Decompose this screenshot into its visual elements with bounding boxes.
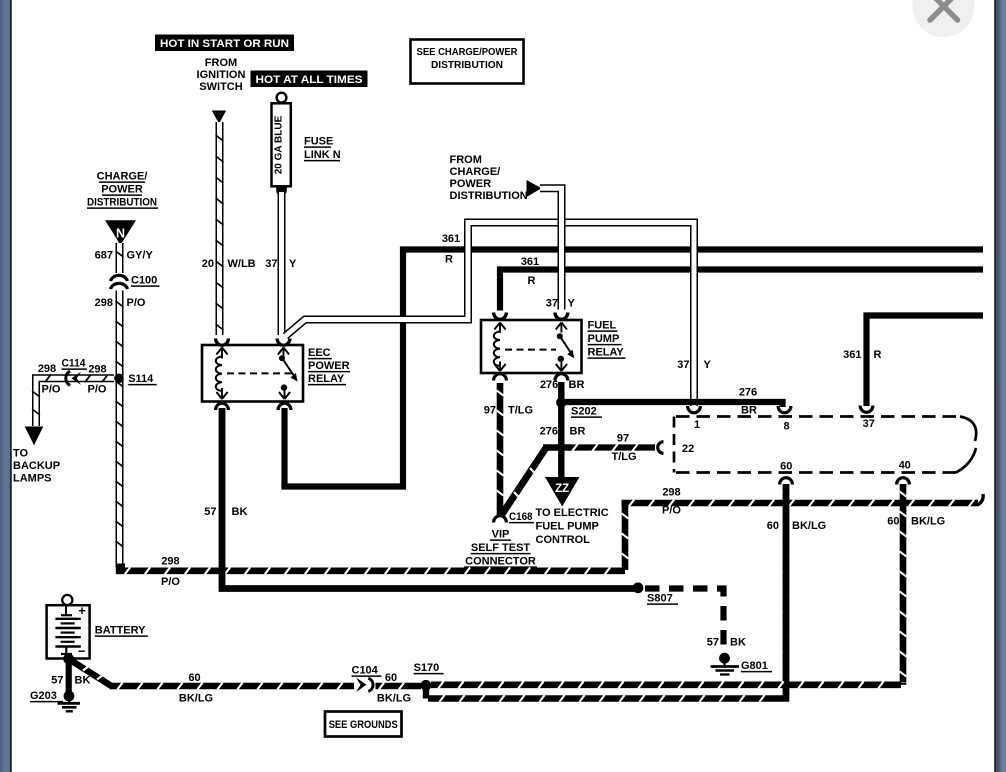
right viewer sidebar [994, 0, 1006, 772]
svg-text:276: 276 [540, 379, 558, 391]
svg-text:FUEL: FUEL [588, 320, 617, 332]
corner filler 298 P/O [116, 564, 125, 575]
svg-text:C114: C114 [62, 358, 87, 370]
svg-text:T/LG: T/LG [611, 451, 636, 463]
svg-text:DISTRIBUTION: DISTRIBUTION [431, 60, 503, 71]
wire 97 T/LG vertical [497, 383, 504, 515]
svg-text:HOT IN START OR RUN: HOT IN START OR RUN [160, 38, 289, 50]
svg-text:T/LG: T/LG [508, 405, 533, 417]
svg-text:BACKUP: BACKUP [13, 460, 60, 472]
svg-text:BK/LG: BK/LG [792, 520, 826, 532]
svg-text:G203: G203 [30, 690, 57, 702]
label VIP SELF TEST CONNECTOR [464, 529, 537, 568]
svg-text:BK: BK [232, 506, 248, 518]
header box HOT AT ALL TIMES [251, 71, 368, 88]
wire 37 Y to fuel pump relay [540, 188, 562, 309]
feed triangle from ignition switch [212, 111, 226, 124]
label 361 R (middle) [521, 256, 539, 287]
label 361 R (right) [843, 349, 881, 361]
label 57 BK (G801) [707, 637, 746, 649]
svg-text:C104: C104 [352, 665, 379, 677]
svg-text:20: 20 [202, 258, 214, 270]
label CHARGE/POWER DISTRIBUTION [87, 171, 158, 209]
svg-text:FROM: FROM [450, 154, 482, 166]
relay fuel pump relay box [481, 320, 582, 373]
wire 60 BK/LG battery to C104 [110, 683, 354, 690]
svg-text:FROM: FROM [205, 57, 237, 69]
label FROM IGNITION SWITCH [197, 57, 246, 93]
label 20 W/LB [202, 258, 256, 270]
svg-text:LINK N: LINK N [304, 149, 341, 161]
ground G801 [711, 653, 773, 675]
svg-text:S170: S170 [414, 662, 440, 674]
svg-text:R: R [445, 254, 453, 266]
label 37 Y (fuel pump relay) [546, 298, 576, 310]
label 276 BR (lower) [540, 426, 586, 438]
svg-text:60: 60 [780, 461, 792, 473]
fuel pump connector dashed box [674, 417, 976, 473]
svg-text:57: 57 [204, 506, 216, 518]
svg-text:VIP: VIP [492, 529, 510, 541]
label 298 P/O (upper) [95, 297, 146, 309]
wire 361 R from EEC relay (thick) [285, 250, 984, 487]
svg-text:CONNECTOR: CONNECTOR [465, 556, 536, 568]
svg-text:SEE CHARGE/POWER: SEE CHARGE/POWER [417, 47, 519, 58]
battery junction dot [63, 653, 74, 664]
svg-text:298: 298 [95, 297, 113, 309]
label 298 P/O (bottom) [161, 556, 180, 589]
svg-text:SELF TEST: SELF TEST [471, 542, 531, 554]
relay pin cup overlays [216, 313, 568, 346]
svg-text:CHARGE/: CHARGE/ [97, 171, 148, 183]
relay EEC power relay box [202, 345, 303, 402]
fuel pump relay pin cups [494, 313, 568, 381]
power feed triangle N [105, 220, 136, 245]
label 97 T/LG (horizontal) [611, 433, 636, 464]
svg-text:N: N [116, 227, 125, 241]
pin 22 [658, 442, 695, 455]
wire 37 Y dogleg EEC relay to pin 1 [286, 223, 695, 407]
svg-text:276: 276 [540, 426, 558, 438]
svg-text:HOT AT ALL TIMES: HOT AT ALL TIMES [256, 74, 363, 86]
svg-text:P/O: P/O [161, 576, 180, 588]
svg-text:C100: C100 [131, 275, 157, 287]
svg-text:57: 57 [51, 675, 63, 687]
svg-text:37: 37 [546, 298, 558, 310]
fuel pump relay dashed link [505, 349, 556, 351]
fuel pump relay contact [556, 323, 574, 372]
wire 298 P/O left vertical [116, 291, 124, 568]
svg-text:276: 276 [739, 387, 757, 399]
svg-text:SWITCH: SWITCH [199, 81, 242, 93]
S170 stub to lower run [423, 686, 429, 699]
svg-text:−: − [78, 644, 86, 659]
svg-text:RELAY: RELAY [308, 373, 345, 385]
svg-text:97: 97 [617, 433, 629, 445]
connector C114 [62, 358, 88, 386]
svg-text:20 GA BLUE: 20 GA BLUE [274, 115, 285, 174]
fuse link 20 GA BLUE body [272, 103, 291, 196]
note box SEE GROUNDS [325, 712, 402, 737]
close button [913, 0, 975, 37]
label 298 P/O (right) [662, 487, 681, 517]
wire 298 P/O bottom run [118, 567, 626, 574]
label FROM CHARGE/POWER DISTRIBUTION [450, 154, 528, 202]
ground G203 [30, 690, 80, 711]
svg-text:CHARGE/: CHARGE/ [450, 166, 501, 178]
wire 20 W/LB [216, 122, 224, 335]
svg-text:BK/LG: BK/LG [911, 516, 945, 528]
pin 60 [780, 461, 793, 485]
svg-text:60: 60 [887, 516, 899, 528]
header box HOT IN START OR RUN [155, 35, 294, 52]
svg-text:CONTROL: CONTROL [536, 534, 591, 546]
svg-text:BATTERY: BATTERY [95, 625, 146, 637]
label FUEL PUMP RELAY [588, 320, 626, 359]
EEC relay contact [278, 348, 298, 400]
label 361 R (left) [442, 233, 460, 266]
svg-text:37: 37 [677, 359, 689, 371]
wire 687 GY/Y [116, 243, 124, 273]
wire 298 P/O right run [622, 494, 984, 570]
connector C168 cup [494, 511, 534, 523]
svg-text:40: 40 [899, 460, 911, 472]
feed triangle ZZ to electric fuel pump control [545, 477, 580, 507]
EEC relay dashed link [227, 372, 294, 374]
svg-text:FUEL PUMP: FUEL PUMP [536, 521, 599, 533]
svg-text:Y: Y [704, 359, 712, 371]
svg-text:S114: S114 [128, 373, 154, 385]
wire 60 BK/LG battery diagonal [70, 660, 114, 688]
svg-text:60: 60 [188, 672, 200, 684]
svg-text:G801: G801 [741, 660, 768, 672]
svg-text:RELAY: RELAY [588, 347, 625, 359]
svg-text:37: 37 [863, 418, 875, 430]
svg-text:IGNITION: IGNITION [197, 69, 246, 81]
svg-text:P/O: P/O [42, 383, 61, 395]
wire 361 R to fuel pump relay coil (thick) [500, 270, 983, 311]
svg-text:R: R [874, 349, 882, 361]
svg-text:P/O: P/O [662, 505, 681, 517]
splice S807 [633, 582, 678, 604]
svg-text:ZZ: ZZ [555, 483, 569, 495]
svg-text:BR: BR [570, 426, 586, 438]
label 60 BK/LG (pin 40) [887, 516, 945, 528]
svg-text:BK: BK [75, 675, 91, 687]
pin 37 [860, 406, 875, 431]
svg-text:361: 361 [442, 233, 460, 245]
svg-text:57: 57 [707, 637, 719, 649]
wire 57 BK from EEC relay [222, 408, 636, 589]
svg-text:BK/LG: BK/LG [377, 693, 411, 705]
label 60 BK/LG (pin 60) [767, 520, 826, 532]
wire 60 BK/LG from pin 60 [428, 484, 789, 702]
label 60 BK/LG (C104) [377, 672, 411, 705]
svg-text:BK: BK [730, 637, 746, 649]
label 276 BR (pin 8) [739, 387, 757, 417]
svg-text:S807: S807 [647, 593, 673, 605]
label EEC POWER RELAY [308, 347, 350, 385]
svg-text:TO ELECTRIC: TO ELECTRIC [536, 507, 609, 519]
wire 37 Y from fuse link [278, 192, 286, 335]
svg-text:POWER: POWER [450, 178, 492, 190]
svg-text:Y: Y [568, 298, 576, 310]
svg-text:687: 687 [95, 250, 113, 262]
svg-text:BK/LG: BK/LG [179, 693, 213, 705]
label FUSE LINK N [304, 136, 341, 162]
arrow to backup lamps [25, 427, 44, 446]
svg-text:EEC: EEC [308, 347, 331, 359]
svg-text:GY/Y: GY/Y [127, 250, 154, 262]
svg-text:P/O: P/O [127, 297, 146, 309]
label TO BACKUP LAMPS [13, 448, 60, 485]
label BATTERY [95, 625, 148, 637]
wire 276 BR to pin 8 (thick) [565, 402, 783, 407]
svg-text:W/LB: W/LB [228, 258, 256, 270]
left viewer sidebar [0, 0, 12, 772]
svg-text:SEE GROUNDS: SEE GROUNDS [329, 719, 398, 731]
connector C104 [352, 665, 382, 693]
svg-text:P/O: P/O [88, 383, 107, 395]
note box SEE CHARGE/POWER DISTRIBUTION [411, 40, 524, 84]
svg-text:298: 298 [88, 363, 106, 375]
svg-text:Y: Y [289, 258, 297, 270]
svg-text:R: R [528, 275, 536, 287]
svg-text:+: + [78, 603, 86, 618]
label 276 BR (upper) [540, 379, 585, 391]
svg-text:BR: BR [741, 405, 757, 417]
svg-text:60: 60 [767, 520, 779, 532]
wire 57 BK battery to G203 [66, 660, 72, 692]
wire 276 BR from relay to S202 and ZZ [558, 382, 564, 479]
label 37 Y (fuse link) [265, 258, 297, 270]
connector C100 [111, 275, 160, 290]
svg-text:DISTRIBUTION: DISTRIBUTION [450, 190, 528, 202]
svg-text:60: 60 [385, 672, 397, 684]
svg-text:POWER: POWER [308, 360, 350, 372]
splice S170 [414, 662, 444, 691]
label TO ELECTRIC FUEL PUMP CONTROL [536, 507, 609, 546]
svg-text:DISTRIBUTION: DISTRIBUTION [87, 197, 157, 209]
svg-text:8: 8 [783, 421, 789, 433]
svg-text:C168: C168 [509, 511, 533, 523]
label 37 Y (pin 1) [677, 359, 711, 371]
fuse link ring terminal [277, 93, 287, 103]
wire 57 BK dashed to G801 [645, 589, 724, 652]
label 57 BK (EEC) [204, 506, 247, 518]
splice S202 [556, 397, 602, 417]
splice S114 [114, 373, 157, 385]
EEC relay coil [216, 348, 228, 400]
svg-text:37: 37 [265, 258, 277, 270]
svg-text:361: 361 [843, 349, 861, 361]
pin 40 [897, 460, 911, 485]
svg-text:361: 361 [521, 256, 539, 268]
svg-text:FUSE: FUSE [304, 136, 333, 148]
svg-text:S202: S202 [571, 406, 597, 418]
label 57 BK (G203) [51, 675, 90, 687]
svg-text:PUMP: PUMP [588, 333, 620, 345]
svg-text:TO: TO [13, 448, 29, 460]
wire 60 BK/LG from pin 40 [900, 484, 907, 683]
svg-text:POWER: POWER [101, 184, 143, 196]
battery [47, 595, 90, 659]
svg-text:298: 298 [38, 363, 56, 375]
pin 1 [688, 406, 701, 431]
wire 361 R to pin 37 (thick) [867, 316, 984, 407]
wire 298 P/O branch to backup lamps [32, 374, 114, 426]
svg-text:298: 298 [161, 556, 179, 568]
label 97 T/LG (vertical) [484, 405, 533, 417]
labels 298 / 298 / P/O / P/O at C114 [38, 363, 107, 395]
svg-text:298: 298 [662, 487, 680, 499]
svg-text:LAMPS: LAMPS [13, 473, 52, 485]
pin 8 [778, 406, 791, 433]
wire 60 BK/LG C104 to S170 and pin 40 [376, 681, 904, 689]
wire 97 T/LG to pin 22 [543, 444, 655, 451]
svg-text:97: 97 [484, 405, 496, 417]
svg-text:1: 1 [694, 419, 700, 431]
svg-text:BR: BR [569, 379, 585, 391]
fuel pump relay coil [494, 323, 506, 372]
label 60 BK/LG (battery) [179, 672, 213, 705]
wire 97 T/LG diagonal to C168 [502, 449, 546, 516]
feed triangle (charge/power) [527, 180, 542, 197]
label 687 GY/Y [95, 250, 154, 262]
svg-text:22: 22 [682, 443, 694, 455]
EEC relay pin cups [216, 339, 291, 411]
